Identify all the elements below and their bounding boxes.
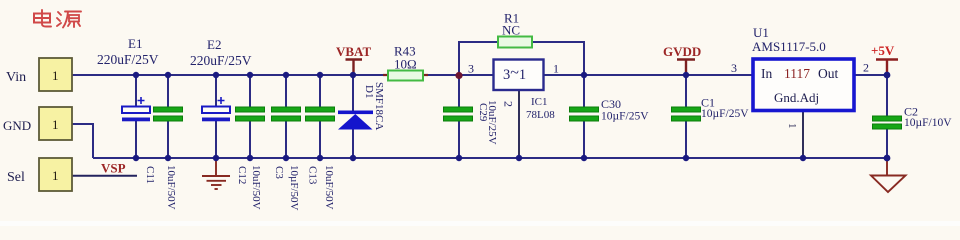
svg-text:10µF/10V: 10µF/10V [904,117,952,129]
IC1 regulator box [494,60,544,91]
svg-text:Vin: Vin [6,70,26,85]
wire: U1 GND pin to ground rail [802,111,804,158]
svg-text:1: 1 [52,168,59,183]
svg-text:U1: U1 [753,25,769,40]
svg-text:10uF/50V: 10uF/50V [165,165,177,210]
svg-text:C3: C3 [273,166,285,179]
svg-text:220uF/25V: 220uF/25V [190,53,252,68]
svg-text:220uF/25V: 220uF/25V [97,52,159,67]
wire: C13 column [319,75,321,158]
junction dot (4-way, maroon) at R1/C29 node [455,72,462,79]
power symbol +5V [871,43,898,75]
wire: IC1 pin2 to ground rail [518,90,520,158]
svg-text:10µF/25V: 10µF/25V [701,108,749,120]
regulator U1 [753,59,854,111]
ground symbol (earth) under E2 [202,158,230,189]
wire: Sel stub VSP [72,175,137,177]
wire: E1 column [135,75,137,158]
capacitor C13 [306,107,335,121]
svg-text:AMS1117-5.0: AMS1117-5.0 [752,39,826,54]
svg-text:1: 1 [52,68,59,83]
svg-text:VSP: VSP [101,161,126,176]
resistor R43 [383,71,428,81]
resistor R1 [498,37,532,48]
wire: C11 column [167,75,169,158]
wire: C29 column [458,75,460,158]
svg-text:3~1: 3~1 [503,65,526,84]
svg-text:Out: Out [818,66,838,81]
svg-text:2: 2 [502,101,516,107]
connector P Sel pin1 [39,158,72,191]
svg-text:IC1: IC1 [531,96,548,108]
svg-text:NC: NC [502,23,520,38]
wire: U1 pin2 to +5V node [855,74,887,76]
wire: E2 column [215,75,217,158]
svg-text:10uF/50V: 10uF/50V [250,165,262,210]
svg-text:Gnd.Adj: Gnd.Adj [774,90,819,105]
connector P GND pin1 [39,107,72,140]
svg-text:1: 1 [786,123,798,129]
svg-text:C11: C11 [144,166,156,184]
svg-text:E1: E1 [128,36,142,51]
capacitor C12 [236,107,265,121]
title 电源 [34,10,81,28]
wire: C3 column [285,75,287,158]
svg-text:10µF/50V: 10µF/50V [288,165,300,211]
wire: R43 to IC1 pin3 [423,74,494,76]
svg-text:1117: 1117 [784,66,810,81]
svg-text:78L08: 78L08 [526,109,555,121]
power symbol GVDD [663,44,701,75]
diode D1 TVS [338,111,373,130]
svg-text:3: 3 [468,62,474,76]
wire: top rail Vin to R43 [72,74,388,76]
svg-text:10Ω: 10Ω [394,57,417,72]
ground symbol (power gnd) right [871,158,906,192]
svg-text:VBAT: VBAT [336,44,371,59]
wire: C30 column [583,75,585,158]
svg-text:Sel: Sel [7,170,25,185]
capacitor C3 [272,107,301,121]
svg-text:C12: C12 [236,166,248,184]
svg-text:+5V: +5V [871,43,895,58]
svg-text:1: 1 [553,62,559,76]
wire: +5V / C2 column [886,75,888,158]
svg-text:10uF/25V: 10uF/25V [486,100,498,145]
svg-text:1: 1 [52,117,59,132]
power symbol VBAT [336,44,371,75]
bottom edge strip [0,221,960,226]
svg-text:GND: GND [3,118,31,133]
wire: R1 bypass loop left [459,42,498,75]
capacitor C11 [154,107,183,121]
svg-text:C13: C13 [307,166,319,185]
svg-text:10µF/25V: 10µF/25V [601,111,649,123]
svg-text:10uF/50V: 10uF/50V [323,165,335,210]
svg-text:GVDD: GVDD [663,44,701,59]
capacitor C30 [570,107,599,121]
wire: C1 column [685,75,687,158]
wire: IC1 pin1 to U1 pin In [544,74,753,76]
wire: D1 column [352,75,354,158]
capacitor E2 (electrolytic) [202,97,230,121]
svg-text:2: 2 [863,61,869,75]
wire: GND port down to ground rail [72,124,93,158]
connector P Vin pin1 [39,58,72,91]
capacitor E1 (electrolytic) [122,97,150,121]
wire: C12 column [249,75,251,158]
svg-text:E2: E2 [207,37,221,52]
capacitor C2 [873,116,902,129]
svg-text:SMF18CA: SMF18CA [373,82,385,130]
wire: R1 bypass loop right [532,42,584,75]
capacitor C29 [444,107,473,121]
svg-text:In: In [761,66,772,81]
svg-text:C30: C30 [601,97,621,111]
capacitor C1 [672,107,701,121]
svg-text:3: 3 [731,61,737,75]
wire: ground rail [93,157,887,159]
